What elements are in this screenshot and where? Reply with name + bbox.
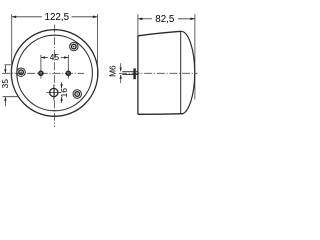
svg-text:16: 16: [59, 88, 69, 98]
svg-text:M6: M6: [107, 65, 117, 77]
svg-text:122,5: 122,5: [45, 12, 70, 23]
svg-text:45: 45: [50, 52, 60, 62]
svg-text:35: 35: [0, 79, 10, 89]
svg-text:82,5: 82,5: [155, 14, 175, 25]
